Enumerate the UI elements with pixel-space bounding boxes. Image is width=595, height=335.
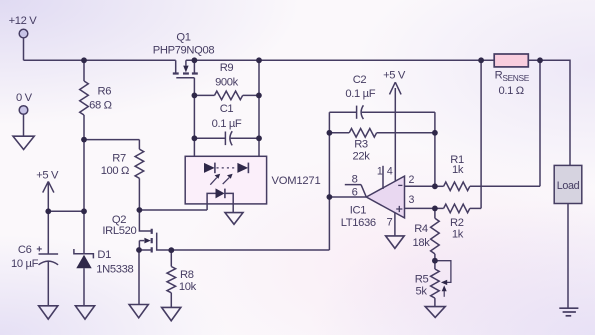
svg-text:C6: C6 [18, 244, 32, 256]
svg-text:+5 V: +5 V [383, 70, 406, 82]
svg-text:900k: 900k [215, 76, 239, 88]
svg-text:0.1 Ω: 0.1 Ω [499, 85, 524, 97]
svg-text:1: 1 [377, 165, 383, 177]
svg-text:Q1: Q1 [176, 32, 190, 44]
svg-text:0.1 µF: 0.1 µF [212, 118, 242, 130]
svg-text:1k: 1k [452, 164, 464, 176]
svg-text:Q2: Q2 [112, 214, 126, 226]
svg-text:IRL520: IRL520 [102, 225, 136, 237]
svg-text:R8: R8 [180, 269, 194, 281]
svg-text:7: 7 [386, 217, 392, 229]
svg-text:68 Ω: 68 Ω [89, 99, 112, 111]
svg-text:R7: R7 [112, 152, 126, 164]
svg-text:5k: 5k [416, 286, 428, 298]
svg-text:100 Ω: 100 Ω [101, 165, 129, 177]
svg-text:PHP79NQ08: PHP79NQ08 [153, 45, 215, 57]
svg-text:2: 2 [409, 174, 415, 186]
svg-text:4: 4 [387, 165, 393, 177]
svg-text:1N5338: 1N5338 [96, 263, 133, 275]
svg-text:R5: R5 [415, 273, 429, 285]
svg-text:R3: R3 [354, 138, 368, 150]
svg-text:1k: 1k [452, 228, 464, 240]
svg-text:RSENSE: RSENSE [495, 69, 530, 83]
svg-text:LT1636: LT1636 [341, 217, 376, 229]
svg-text:Load: Load [557, 180, 580, 192]
svg-text:18k: 18k [413, 237, 431, 249]
svg-text:10k: 10k [179, 281, 197, 293]
svg-text:C2: C2 [353, 74, 367, 86]
svg-text:D1: D1 [97, 249, 111, 261]
svg-text:IC1: IC1 [350, 205, 366, 217]
svg-text:+5 V: +5 V [36, 170, 59, 182]
svg-text:8: 8 [352, 174, 358, 186]
svg-text:VOM1271: VOM1271 [272, 175, 321, 187]
svg-text:6: 6 [352, 187, 358, 199]
svg-text:10 µF: 10 µF [11, 258, 39, 270]
svg-text:C1: C1 [220, 103, 234, 115]
svg-text:0.1 µF: 0.1 µF [345, 88, 375, 100]
svg-text:0 V: 0 V [16, 92, 33, 104]
svg-text:22k: 22k [353, 150, 371, 162]
svg-text:+12 V: +12 V [9, 15, 38, 27]
svg-text:R6: R6 [98, 85, 112, 97]
svg-text:3: 3 [409, 194, 415, 206]
svg-text:R4: R4 [414, 223, 428, 235]
svg-text:R9: R9 [220, 62, 234, 74]
